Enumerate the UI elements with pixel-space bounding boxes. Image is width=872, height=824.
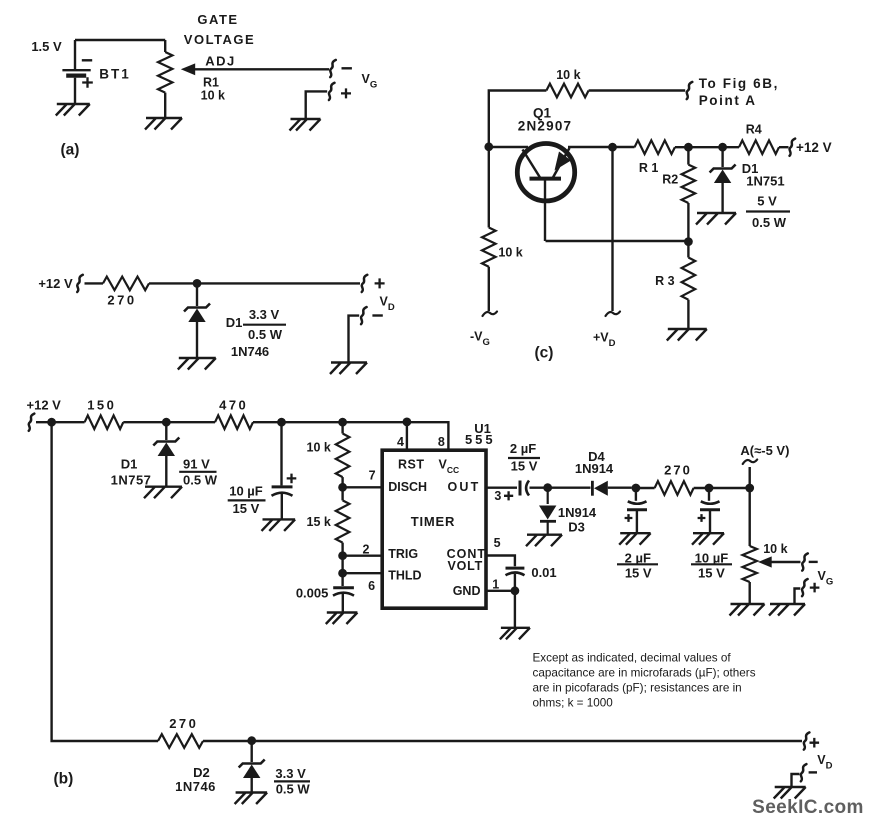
wire pin1	[486, 590, 515, 592]
node	[193, 279, 202, 288]
svg-text:DISCH: DISCH	[388, 480, 427, 494]
svg-text:6: 6	[368, 579, 375, 593]
label -VG	[470, 330, 490, 349]
svg-text:GATE: GATE	[197, 12, 238, 27]
label +12 V	[27, 398, 62, 413]
svg-text:2: 2	[363, 543, 370, 557]
wire	[636, 510, 638, 533]
wire	[123, 421, 215, 423]
svg-text:10 µF: 10 µF	[229, 484, 263, 499]
wire pin4	[406, 422, 408, 450]
wire	[341, 477, 343, 500]
wire	[196, 283, 198, 306]
ground	[526, 535, 562, 547]
svg-text:are in picofarads (pF); resist: are in picofarads (pF); resistances are …	[533, 682, 742, 695]
wire	[608, 487, 632, 489]
label (c)	[535, 344, 554, 361]
potentiometer R1	[158, 52, 172, 93]
wire	[342, 594, 344, 613]
svg-text:10 µF: 10 µF	[695, 550, 729, 565]
ground	[619, 533, 650, 545]
svg-text:0.5 W: 0.5 W	[183, 472, 218, 487]
svg-text:0.5 W: 0.5 W	[248, 327, 283, 342]
resistor R2	[682, 165, 696, 203]
wire	[489, 146, 528, 148]
node	[403, 418, 412, 427]
wire	[36, 421, 85, 423]
label pin 2	[363, 543, 370, 557]
label +12 V	[796, 140, 832, 155]
wire	[75, 39, 165, 41]
wire	[52, 422, 158, 741]
label D4 1N914	[575, 449, 614, 476]
wire	[635, 488, 637, 501]
label Q1 2N2907	[518, 106, 573, 134]
wire	[349, 316, 360, 362]
node	[484, 142, 493, 151]
svg-text:270: 270	[169, 716, 198, 731]
label Vcc	[439, 457, 460, 475]
svg-text:capacitance are in microfarads: capacitance are in microfarads (µF); oth…	[533, 667, 756, 680]
svg-text:15 V: 15 V	[625, 565, 652, 580]
note text	[533, 652, 756, 710]
label pin 7	[369, 468, 376, 482]
label 270	[107, 293, 136, 308]
wire	[165, 456, 167, 487]
label pin 4	[397, 435, 404, 449]
connector -VG	[330, 60, 352, 77]
wire	[613, 146, 635, 148]
wire	[779, 146, 789, 148]
svg-text:A(≈-5 V): A(≈-5 V)	[740, 443, 789, 458]
wire	[306, 91, 328, 118]
label 1N914 D3	[558, 505, 597, 535]
wire pin2	[343, 555, 383, 557]
battery BT1	[62, 60, 130, 87]
wire	[488, 267, 490, 311]
svg-text:270: 270	[664, 462, 692, 477]
label GATE VOLTAGE ADJ	[184, 12, 255, 69]
wire pin5	[486, 556, 515, 567]
ground	[330, 363, 367, 375]
label 10uF 15V	[691, 550, 732, 580]
svg-text:2N2907: 2N2907	[518, 119, 573, 134]
label 2uF 15V	[508, 441, 540, 473]
resistor 10k top	[546, 84, 588, 98]
wiper arrow	[758, 556, 772, 567]
connector +12 V	[77, 275, 83, 292]
wire	[149, 282, 360, 284]
ground	[144, 487, 182, 499]
node	[247, 736, 256, 745]
connector +12 V	[790, 139, 796, 156]
svg-text:3.3 V: 3.3 V	[275, 766, 306, 781]
svg-text:15 k: 15 k	[307, 515, 331, 529]
svg-text:8: 8	[438, 435, 445, 449]
wire	[74, 78, 76, 104]
ground	[730, 604, 765, 616]
svg-text:555: 555	[465, 432, 496, 447]
label 10uF 15V	[228, 484, 266, 516]
wire	[749, 582, 751, 604]
svg-text:R 3: R 3	[655, 274, 675, 288]
label VD	[380, 295, 395, 314]
ground	[56, 104, 90, 116]
label pin 3	[494, 489, 501, 503]
svg-text:1N757: 1N757	[111, 473, 152, 488]
svg-text:TIMER: TIMER	[411, 514, 455, 529]
wire	[530, 487, 591, 489]
wire	[196, 322, 198, 358]
label 2uF 15V	[617, 550, 658, 580]
label pin 1	[492, 577, 499, 591]
zener D1 1N746	[184, 304, 210, 323]
svg-text:(a): (a)	[61, 141, 80, 158]
svg-text:5: 5	[494, 536, 501, 550]
label 0.005	[296, 585, 329, 600]
resistor 150	[85, 415, 124, 429]
wire	[568, 146, 613, 148]
node	[608, 143, 617, 152]
node	[338, 551, 347, 560]
label +12 V	[38, 276, 73, 291]
svg-text:0.005: 0.005	[296, 585, 329, 600]
label D2 1N746	[175, 765, 216, 794]
svg-text:+12 V: +12 V	[38, 276, 73, 291]
wire	[250, 741, 252, 762]
diode D4 1N914	[592, 481, 607, 496]
label R3	[655, 274, 675, 288]
wire	[589, 89, 686, 91]
label 15 k	[307, 515, 331, 529]
resistor 15k	[336, 500, 350, 542]
svg-text:D1: D1	[121, 457, 138, 472]
svg-text:1N751: 1N751	[746, 174, 784, 189]
svg-text:15 V: 15 V	[698, 565, 725, 580]
connector -VD	[361, 307, 383, 324]
label 10 k	[763, 542, 787, 556]
wire	[770, 561, 801, 563]
wire	[514, 591, 516, 628]
label THLD	[388, 568, 421, 582]
timer U1 555 box	[382, 450, 486, 608]
ground	[262, 519, 296, 531]
svg-text:VOLT: VOLT	[448, 559, 484, 573]
wire	[721, 183, 723, 213]
wire	[341, 422, 343, 433]
svg-text:R4: R4	[746, 123, 762, 137]
svg-text:3.3 V: 3.3 V	[249, 307, 280, 322]
resistor R4	[739, 140, 779, 154]
wire	[164, 93, 166, 118]
wire	[708, 488, 710, 501]
svg-text:10 k: 10 k	[201, 89, 225, 103]
ground	[235, 793, 268, 805]
label pin 8	[438, 435, 445, 449]
svg-text:OUT: OUT	[448, 480, 481, 494]
terminal +VD	[606, 312, 621, 317]
resistor 10k left	[482, 228, 496, 267]
svg-text:D2: D2	[193, 765, 210, 780]
svg-text:3: 3	[494, 489, 501, 503]
svg-text:R2: R2	[662, 173, 678, 187]
svg-text:1N746: 1N746	[231, 344, 269, 359]
svg-text:4: 4	[397, 435, 404, 449]
wire	[749, 488, 751, 546]
resistor 270	[103, 277, 149, 291]
svg-text:(c): (c)	[535, 344, 554, 361]
ground	[667, 329, 707, 341]
wire	[687, 300, 689, 329]
label To Fig 6B Point A	[699, 76, 779, 108]
label VD	[817, 753, 832, 772]
wire	[164, 40, 166, 52]
label U1 555	[465, 421, 496, 447]
ground	[774, 787, 806, 799]
svg-text:10 k: 10 k	[307, 441, 331, 455]
wire	[280, 422, 282, 485]
svg-text:SeekIC.com: SeekIC.com	[752, 797, 864, 818]
svg-text:0.01: 0.01	[531, 565, 556, 580]
wire	[514, 574, 516, 591]
svg-text:5 V: 5 V	[757, 194, 777, 209]
ground	[500, 628, 530, 640]
capacitor 10uF	[272, 474, 297, 496]
wire pin7	[343, 486, 383, 488]
svg-text:1.5 V: 1.5 V	[31, 39, 62, 54]
label 0.01	[531, 565, 556, 580]
ground	[769, 604, 805, 616]
svg-text:Except as indicated, decimal v: Except as indicated, decimal values of	[533, 652, 732, 665]
connector +12 V	[29, 414, 35, 431]
resistor R3	[682, 258, 696, 300]
label CONT	[447, 547, 486, 561]
watermark SeekIC.com	[752, 797, 864, 818]
svg-text:470: 470	[219, 398, 248, 413]
label R1	[639, 161, 659, 175]
svg-text:+12 V: +12 V	[796, 140, 832, 155]
ground	[326, 613, 358, 625]
node	[511, 586, 520, 595]
wire	[489, 91, 547, 228]
label 270	[664, 462, 692, 477]
svg-text:VOLTAGE: VOLTAGE	[184, 32, 255, 47]
node	[338, 569, 347, 578]
svg-text:+12 V: +12 V	[27, 398, 62, 413]
connector +VD	[362, 275, 385, 292]
wire	[546, 240, 689, 242]
svg-text:To Fig 6B,: To Fig 6B,	[699, 76, 779, 91]
wire	[709, 510, 711, 533]
svg-text:Point A: Point A	[699, 93, 757, 108]
svg-text:R1: R1	[203, 75, 219, 89]
label pin 6	[368, 579, 375, 593]
wire	[795, 589, 801, 605]
svg-text:150: 150	[87, 398, 116, 413]
svg-text:270: 270	[107, 293, 136, 308]
svg-text:THLD: THLD	[388, 568, 421, 582]
svg-text:1N746: 1N746	[175, 779, 216, 794]
wire	[85, 282, 104, 284]
wire	[675, 146, 739, 148]
capacitor 2uF	[625, 501, 647, 522]
label +VD	[593, 331, 616, 350]
ground	[290, 119, 321, 131]
label RST	[398, 457, 425, 471]
wire	[749, 467, 751, 488]
wire	[611, 147, 613, 311]
wire	[636, 487, 655, 489]
label 150	[87, 398, 116, 413]
svg-text:2 µF: 2 µF	[510, 441, 536, 456]
svg-text:ADJ: ADJ	[205, 53, 236, 68]
potentiometer 10k	[743, 546, 757, 582]
svg-text:D1: D1	[226, 315, 243, 330]
wire pin6	[343, 572, 383, 574]
node	[684, 143, 693, 152]
svg-text:10 k: 10 k	[763, 542, 787, 556]
zener D1 1N757	[153, 438, 179, 457]
resistor 470	[215, 415, 253, 429]
terminal A	[743, 460, 758, 465]
node	[47, 418, 56, 427]
label R2	[662, 173, 678, 187]
capacitor 10uF	[698, 501, 720, 522]
svg-text:R 1: R 1	[639, 161, 659, 175]
label TRIG	[388, 547, 418, 561]
svg-text:15 V: 15 V	[511, 458, 538, 473]
label DISCH	[388, 480, 427, 494]
wire pin3	[486, 487, 517, 489]
label (b)	[54, 771, 74, 788]
svg-text:15 V: 15 V	[233, 501, 260, 516]
node	[338, 483, 347, 492]
connector -VD	[801, 764, 817, 781]
svg-text:ohms; k = 1000: ohms; k = 1000	[533, 697, 614, 710]
wire	[194, 68, 330, 70]
node	[162, 418, 171, 427]
label 1.5 V	[31, 39, 62, 54]
svg-text:(b): (b)	[54, 771, 74, 788]
node	[338, 418, 347, 427]
svg-text:10 k: 10 k	[556, 68, 580, 82]
svg-text:0.5 W: 0.5 W	[276, 781, 311, 796]
ground	[145, 118, 182, 130]
label 270	[169, 716, 198, 731]
node	[684, 237, 693, 246]
zener D2 1N746	[239, 760, 265, 779]
resistor R1	[635, 140, 675, 154]
resistor 10k	[336, 434, 350, 478]
svg-text:TRIG: TRIG	[388, 547, 418, 561]
wire	[74, 40, 76, 69]
label VG	[818, 569, 834, 588]
transistor Q1	[517, 144, 574, 242]
label VOLT	[448, 559, 484, 573]
label D1 3.3V 0.5W 1N746	[226, 307, 286, 359]
svg-text:0.5 W: 0.5 W	[752, 215, 787, 230]
svg-text:91 V: 91 V	[183, 456, 210, 471]
wiper arrow	[181, 63, 195, 75]
label R1 10 k	[201, 75, 225, 102]
label 3.3V 0.5W	[274, 766, 310, 797]
resistor 270	[655, 481, 694, 495]
connector +VG	[802, 579, 819, 596]
svg-text:D3: D3	[568, 520, 585, 535]
label A(-5V)	[740, 443, 789, 458]
label 470	[219, 398, 248, 413]
node	[718, 143, 727, 152]
wire	[687, 147, 689, 164]
connector -VG	[802, 553, 818, 570]
svg-text:RST: RST	[398, 457, 425, 471]
label OUT	[448, 480, 481, 494]
wire	[694, 487, 746, 489]
zener D1 1N751	[710, 165, 736, 184]
wire	[721, 147, 723, 167]
wire	[281, 494, 283, 519]
ground	[692, 533, 724, 545]
wire	[203, 740, 802, 742]
ground	[178, 358, 216, 370]
label R4	[746, 123, 762, 137]
wire	[792, 774, 800, 787]
label pin 5	[494, 536, 501, 550]
svg-text:1N914: 1N914	[575, 461, 614, 476]
wire	[687, 203, 689, 258]
wire	[165, 422, 167, 440]
wire	[250, 778, 252, 793]
capacitor 0.005	[333, 588, 354, 596]
svg-text:1N914: 1N914	[558, 505, 597, 520]
label 10 k	[307, 441, 331, 455]
connector +VD	[804, 732, 819, 749]
wire	[341, 543, 343, 586]
label GND	[453, 584, 481, 598]
node A	[745, 484, 754, 493]
connector +VG	[329, 83, 351, 100]
node	[543, 483, 552, 492]
svg-text:10 k: 10 k	[498, 245, 522, 259]
label 10 k	[556, 68, 580, 82]
terminal -VG	[483, 312, 498, 317]
svg-text:7: 7	[369, 468, 376, 482]
capacitor 0.01	[506, 568, 525, 575]
node	[632, 484, 641, 493]
diode D3 1N914	[539, 488, 556, 535]
label (a)	[61, 141, 80, 158]
resistor 270	[158, 734, 203, 748]
svg-text:2 µF: 2 µF	[625, 550, 651, 565]
connector Point A	[687, 82, 693, 99]
svg-text:BT1: BT1	[99, 67, 131, 82]
label TIMER	[411, 514, 455, 529]
node	[705, 484, 714, 493]
wire pin8	[253, 422, 448, 450]
label D1 1N751 5V 0.5W	[742, 161, 790, 230]
label 10 k	[498, 245, 522, 259]
capacitor 2uF series	[504, 481, 529, 501]
label VG	[362, 72, 378, 91]
node	[277, 418, 286, 427]
svg-text:1: 1	[492, 577, 499, 591]
ground	[696, 213, 736, 225]
label D1 1N757 91V 0.5W	[111, 456, 218, 487]
svg-text:GND: GND	[453, 584, 481, 598]
